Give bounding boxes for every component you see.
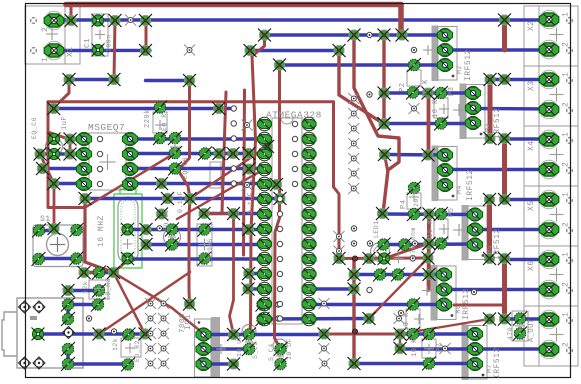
connector X4 silkscreen box: [524, 126, 578, 186]
via junction pad: [423, 237, 436, 250]
regulator IC1 heatsink tab: [211, 317, 220, 377]
IC MSGEQ7 pin 6: [122, 162, 137, 175]
svg-text:100n: 100n: [106, 34, 113, 52]
unused hole: [394, 313, 405, 324]
via junction pad: [34, 148, 47, 161]
IC ATMEGA328 pin 8: [258, 222, 272, 235]
transistor Q6 IRF512 tab: [431, 265, 438, 321]
resistor P4 pad: [407, 181, 421, 195]
capacitor C3 pad: [242, 328, 256, 342]
origin cross: [422, 286, 432, 296]
pushbutton S1 silkscreen: [33, 225, 83, 267]
via junction pad: [270, 178, 283, 191]
unused hole: [158, 343, 169, 354]
IC ATMEGA328 pin 10: [258, 252, 272, 265]
wire: [40, 154, 54, 229]
via junction pad: [396, 29, 409, 42]
wire: [130, 182, 265, 185]
wire: [265, 33, 446, 36]
hole: [277, 196, 282, 201]
via junction pad: [378, 118, 391, 131]
wire: [384, 243, 405, 246]
wire: [405, 242, 476, 246]
IC ATMEGA328 pin 14: [258, 312, 272, 325]
svg-text:12k: 12k: [82, 281, 89, 294]
via junction pad: [261, 140, 274, 153]
wire: [130, 167, 265, 170]
svg-text:P2: P2: [399, 83, 407, 92]
via: [352, 329, 357, 334]
origin cross: [168, 233, 176, 241]
IC ATMEGA328 pin 7: [258, 207, 272, 220]
svg-text:10 UF: 10 UF: [236, 335, 243, 357]
connector X2 cross: [550, 28, 564, 42]
wire: [68, 289, 99, 292]
via junction pad: [79, 192, 92, 205]
wire: [502, 20, 507, 50]
connector A_OUT cross: [550, 328, 564, 342]
svg-text:P7: P7: [436, 343, 444, 352]
resistor 220k pad: [153, 131, 167, 145]
unused hole: [145, 328, 156, 339]
transistor Q2 silkscreen box: [466, 85, 485, 139]
wire: [385, 155, 388, 171]
svg-text:X2: X2: [527, 20, 536, 31]
wire: [339, 257, 428, 261]
svg-text:10 K: 10 K: [403, 312, 411, 331]
svg-text:ED_R2: ED_R2: [134, 340, 141, 362]
via junction pad: [213, 147, 226, 160]
transistor Q5 pin 3: [467, 238, 482, 251]
via junction pad: [378, 148, 391, 161]
unused hole: [348, 153, 359, 164]
connector A_OUT pad 1: [539, 310, 559, 329]
origin cross: [170, 142, 180, 152]
capacitor pad: [256, 298, 270, 312]
wire: [444, 288, 549, 291]
hole: [277, 211, 282, 216]
connector A_OUT pad 2: [539, 340, 559, 359]
connector A_OUT silkscreen box: [524, 306, 578, 366]
via junction pad: [63, 73, 76, 86]
unused hole: [125, 15, 136, 26]
wire: [244, 90, 245, 255]
via junction pad: [243, 163, 256, 176]
capacitor C8 pad: [168, 146, 182, 160]
IC ATMEGA328 silkscreen outline: [272, 118, 302, 324]
svg-text:X4: X4: [527, 140, 536, 151]
capacitor C7 pad: [168, 162, 182, 176]
via junction pad: [140, 238, 153, 251]
wire: [505, 258, 550, 261]
wire: [114, 21, 115, 80]
jack J1 mount pad: [33, 357, 45, 369]
via junction pad: [48, 222, 61, 235]
svg-text:470 ohm: 470 ohm: [410, 227, 417, 258]
via junction pad: [498, 313, 511, 326]
terminal mark: [566, 47, 573, 54]
unused hole: [158, 313, 169, 324]
resistor P5 silkscreen box: [434, 219, 448, 239]
svg-text:1: 1: [562, 252, 571, 257]
wire: [399, 334, 401, 349]
capacitor C1 silkscreen box: [92, 14, 108, 56]
unused hole: [158, 298, 169, 309]
wire: [445, 168, 549, 171]
hole: [277, 286, 282, 291]
hole: [351, 226, 356, 231]
resistor P3 pad: [434, 117, 448, 131]
transistor Q5 pin 2: [467, 223, 482, 236]
wire power bus drop: [398, 5, 404, 36]
resistor P5 pad: [434, 207, 448, 221]
terminal mark: [566, 77, 573, 84]
capacitor C3 pad: [242, 342, 256, 356]
LED1 pad: [378, 252, 391, 265]
IC ATMEGA328 pin 12: [258, 282, 272, 295]
svg-text:ED_R3: ED_R3: [105, 278, 112, 300]
transistor Q2 pin 2: [465, 101, 480, 114]
terminal mark: [30, 17, 37, 24]
via junction pad: [273, 59, 286, 72]
resistor P4 silkscreen box: [407, 193, 421, 209]
wire: [505, 137, 550, 140]
resistor EQ_R3 pad: [91, 298, 105, 312]
hole: [231, 181, 236, 186]
transistor Q7 IRF512 tab: [462, 325, 469, 381]
via junction pad: [242, 283, 255, 296]
wire: [146, 79, 190, 82]
capacitor C7 pad: [198, 147, 212, 161]
resistor P6 silkscreen box: [406, 309, 420, 329]
via junction pad: [183, 74, 196, 87]
transistor Q2 pin 1: [465, 86, 480, 99]
wire: [339, 51, 384, 125]
unused hole: [319, 343, 330, 354]
via junction pad: [394, 342, 407, 355]
via junction pad: [93, 328, 106, 341]
svg-text:2: 2: [562, 162, 571, 167]
via junction pad: [64, 148, 77, 161]
resistor ladder pad: [373, 268, 387, 282]
wire: [48, 100, 334, 103]
IC ATMEGA328 pin 16: [302, 297, 316, 310]
IC ATMEGA328 pin 1: [258, 117, 272, 130]
wire: [204, 212, 234, 215]
resistor P5 pad: [434, 237, 448, 251]
svg-text:1: 1: [562, 192, 571, 197]
crystal Q1 16MHZ outline: [114, 189, 142, 268]
wire: [128, 228, 265, 231]
via junction pad: [78, 266, 91, 279]
resistor R_1M silkscreen box: [197, 224, 212, 266]
origin cross: [95, 30, 105, 40]
connector X4 cross: [550, 148, 564, 162]
wire: [68, 362, 128, 365]
hole: [157, 226, 162, 231]
capacitor EQ_C7 silkscreen box: [210, 162, 221, 188]
wire: [427, 93, 431, 155]
hole: [277, 301, 282, 306]
hole: [292, 151, 297, 156]
unused hole: [145, 298, 156, 309]
terminal mark: [30, 47, 37, 54]
terminal mark: [566, 257, 573, 264]
capacitor C3 outline: [242, 325, 256, 339]
via junction pad: [333, 252, 346, 265]
via junction pad: [36, 162, 49, 175]
via junction pad: [155, 208, 168, 221]
via junction pad: [139, 44, 152, 57]
via junction pad: [227, 358, 240, 371]
origin cross: [394, 253, 404, 263]
unused hole: [242, 120, 253, 131]
svg-text:M3: M3: [484, 123, 491, 132]
hole: [231, 166, 236, 171]
via junction pad: [484, 73, 497, 86]
wire: [384, 244, 429, 259]
pushbutton S1 pad: [32, 224, 46, 238]
wire: [354, 35, 399, 214]
via junction pad: [423, 237, 436, 250]
IC MSGEQ7 pin 4: [76, 177, 91, 190]
unused hole: [348, 168, 359, 179]
svg-text:16 MHZ: 16 MHZ: [97, 215, 106, 247]
wire: [114, 260, 130, 273]
wire: [145, 21, 148, 51]
wire: [85, 199, 114, 273]
origin cross: [414, 314, 424, 324]
unused hole: [145, 343, 156, 354]
resistor EQ_R3 silkscreen box: [89, 280, 108, 299]
wire: [490, 78, 549, 81]
origin cross: [199, 239, 211, 251]
resistor A_OUT 470 silkscreen box: [512, 311, 528, 341]
capacitor C4 outline: [273, 339, 287, 353]
IC ATMEGA328 pin 20: [302, 237, 316, 250]
via junction pad: [161, 192, 174, 205]
resistor 220k silkscreen box: [153, 112, 167, 133]
wire: [130, 137, 265, 140]
capacitor C1 pad 2: [92, 44, 105, 57]
transistor Q6 pin 1: [436, 268, 451, 281]
capacitor C2 pad: [165, 238, 179, 252]
origin cross: [439, 104, 449, 114]
wire: [263, 317, 370, 321]
wire: [222, 92, 226, 212]
resistor A_OUT 470 pad: [513, 327, 527, 341]
via junction pad: [108, 73, 121, 86]
hole: [367, 32, 372, 37]
IC MSGEQ7 pin 5: [122, 177, 137, 190]
svg-text:IRF512: IRF512: [493, 228, 502, 260]
wire: [400, 319, 490, 334]
svg-text:M6: M6: [455, 305, 462, 314]
unused hole: [184, 45, 195, 56]
hole: [367, 92, 372, 97]
transistor Q6 pin 2: [436, 283, 451, 296]
wire: [84, 271, 99, 274]
origin cross: [125, 343, 135, 353]
wire: [250, 35, 265, 335]
connector X2 silkscreen box: [524, 6, 578, 66]
hole: [231, 106, 236, 111]
via junction pad: [423, 208, 436, 221]
hole: [410, 256, 415, 261]
hole: [398, 310, 403, 315]
wire: [48, 102, 85, 208]
regulator IC1 silkscreen box: [195, 319, 212, 377]
via junction pad: [498, 193, 511, 206]
wire: [69, 78, 114, 81]
via junction pad: [64, 133, 77, 146]
connector X6 pad 1: [539, 250, 559, 269]
connector X6 silkscreen box: [524, 246, 578, 306]
pushbutton S1 pad: [32, 252, 46, 266]
wire: [130, 152, 265, 155]
origin cross: [409, 192, 419, 202]
svg-text:0.1uF: 0.1uF: [177, 191, 184, 213]
via junction pad: [212, 102, 225, 115]
resistor R_1M pad: [198, 223, 212, 237]
wire: [352, 259, 355, 364]
hole: [471, 289, 476, 294]
IC ATMEGA328 pin 2: [258, 132, 272, 145]
svg-text:10 UF: 10 UF: [286, 338, 293, 360]
wire: [204, 212, 265, 215]
resistor P2 pad: [406, 86, 420, 100]
IC MSGEQ7 pin 2: [76, 147, 91, 160]
via junction pad: [348, 283, 361, 296]
wire: [204, 362, 234, 365]
via junction pad: [258, 29, 271, 42]
wire: [487, 200, 492, 259]
transistor Q3 IRF512 tab: [432, 146, 439, 202]
wire: [400, 332, 475, 335]
pushbutton S1 pad: [70, 223, 84, 237]
transistor Q5 silkscreen box: [468, 206, 487, 260]
IC ATMEGA328 pin 17: [302, 282, 316, 295]
terminal mark: [566, 317, 573, 324]
wire VCC top: [54, 18, 549, 21]
svg-text:P4: P4: [400, 200, 408, 209]
unused hole: [348, 108, 359, 119]
origin cross: [94, 284, 104, 294]
svg-text:470: 470: [507, 327, 514, 340]
hole: [111, 329, 116, 334]
unused hole: [348, 138, 359, 149]
wire: [190, 147, 268, 199]
transistor Q1 pin 2: [437, 43, 452, 56]
IC ATMEGA328 pin 15: [302, 312, 316, 325]
jack J1 pad: [61, 312, 75, 326]
wire: [384, 91, 473, 94]
via junction pad: [227, 328, 240, 341]
wire: [488, 80, 493, 139]
svg-text:1: 1: [41, 57, 50, 62]
transistor Q3 silkscreen box: [438, 147, 457, 201]
hole: [292, 121, 297, 126]
wire: [114, 273, 205, 335]
hole: [292, 166, 297, 171]
origin cross: [245, 338, 253, 346]
transistor Q7 pin 1: [467, 327, 482, 340]
origin cross: [439, 224, 449, 234]
via junction pad: [62, 284, 75, 297]
capacitor C2 pad: [165, 223, 179, 237]
IC MSGEQ7 pin 1: [76, 132, 91, 145]
regulator IC1 pin 2: [196, 342, 211, 355]
svg-text:10 K: 10 K: [422, 79, 430, 98]
connector X3 cross: [550, 88, 564, 102]
svg-text:M5: M5: [486, 245, 493, 254]
wire: [204, 347, 250, 350]
unused hole: [348, 93, 359, 104]
svg-text:S_C3: S_C3: [252, 341, 259, 359]
hole: [277, 226, 282, 231]
connector X3 silkscreen box: [524, 66, 578, 126]
via junction pad: [274, 192, 287, 205]
IC MSGEQ7 pin 7: [122, 147, 137, 160]
connector X2 pad 1: [539, 10, 559, 29]
wire: [54, 49, 150, 52]
jack J1 pad: [61, 342, 75, 356]
svg-text:X1: X1: [66, 46, 75, 57]
svg-text:0.1uF: 0.1uF: [247, 192, 254, 214]
svg-text:ATMEGA328: ATMEGA328: [266, 110, 322, 121]
resistor ladder pad: [391, 268, 405, 282]
transistor Q3 pin 3: [437, 178, 452, 191]
wire: [369, 258, 428, 319]
svg-text:220k: 220k: [144, 109, 152, 128]
wire: [427, 214, 431, 290]
IC ATMEGA328 pin 5: [258, 177, 272, 190]
via junction pad: [140, 223, 153, 236]
terminal mark: [566, 197, 573, 204]
resistor P3 silkscreen box: [434, 98, 448, 118]
origin cross: [100, 154, 116, 170]
resistor P7 silkscreen box: [422, 339, 436, 358]
hole: [97, 151, 102, 156]
transistor Q6 silkscreen box: [437, 266, 456, 320]
connector X6 pad 2: [539, 280, 559, 299]
LED1 pad: [398, 238, 412, 252]
hole: [277, 241, 282, 246]
via junction pad: [378, 29, 391, 42]
IC ATMEGA328 pin 28: [302, 117, 316, 130]
via junction pad: [47, 177, 60, 190]
wire: [114, 273, 146, 335]
unused hole: [319, 358, 330, 369]
wire: [502, 259, 507, 320]
IC ATMEGA328 pin 18: [302, 267, 316, 280]
IC ATMEGA328 pin 23: [302, 192, 316, 205]
hole: [367, 287, 372, 292]
origin cross: [276, 352, 284, 360]
IC ATMEGA328 pin 19: [302, 252, 316, 265]
svg-text:EQ_C6: EQ_C6: [31, 117, 38, 139]
capacitor pad: [256, 312, 270, 326]
capacitor C4 pad: [274, 342, 288, 356]
resistor EQ_R2 pad: [122, 328, 136, 342]
via junction pad: [498, 132, 511, 145]
connector X3 pad 2: [539, 100, 559, 119]
unused hole: [334, 246, 345, 257]
svg-text:1: 1: [562, 72, 571, 77]
hole: [277, 316, 282, 321]
svg-text:2: 2: [562, 42, 571, 47]
via junction pad: [183, 298, 196, 311]
